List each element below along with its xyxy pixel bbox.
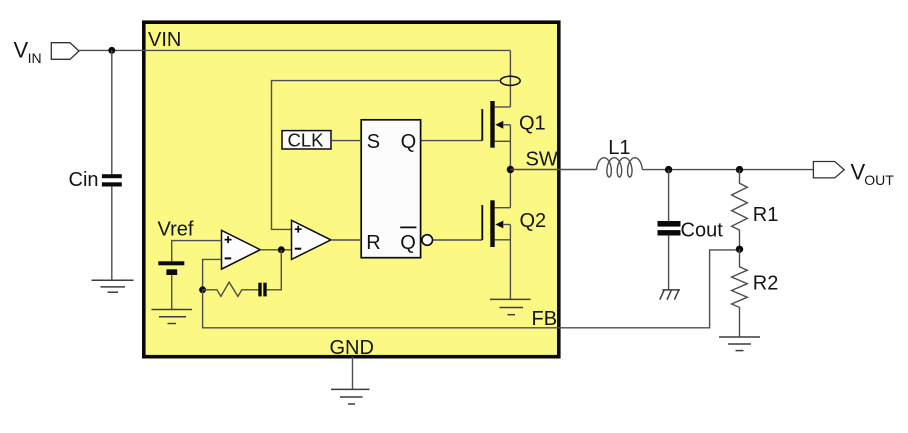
port flag VOUT bbox=[813, 162, 844, 178]
wire Cin top lead bbox=[111, 50, 113, 174]
capacitor Cout plates bbox=[658, 221, 681, 236]
wire A1 output to comparator bbox=[260, 249, 291, 251]
svg-text:VIN: VIN bbox=[148, 29, 181, 51]
wire A1 minus input bbox=[203, 259, 222, 289]
wire CLK to S bbox=[331, 140, 361, 142]
sr-latch U2 box bbox=[361, 120, 420, 258]
wire Q1 drain riser from VIN bbox=[509, 50, 511, 107]
svg-text:GND: GND bbox=[330, 337, 374, 359]
wire A2 output to R input bbox=[331, 239, 361, 241]
wire L1 to output flag bbox=[642, 169, 813, 171]
svg-text:IN: IN bbox=[28, 50, 42, 66]
svg-text:Cin: Cin bbox=[69, 169, 99, 191]
op-amp error amplifier A1 bbox=[222, 230, 261, 269]
wire Cout bottom lead bbox=[668, 236, 670, 290]
wire Vref to A1 plus input bbox=[172, 241, 222, 262]
battery Vref bbox=[158, 261, 184, 275]
svg-text:FB: FB bbox=[532, 308, 558, 330]
wire current sense to comparator loop bbox=[272, 81, 501, 230]
svg-text:S: S bbox=[367, 131, 380, 153]
node SW junction bbox=[507, 166, 514, 173]
clock source CLK box bbox=[282, 131, 331, 149]
resistor R1 bbox=[732, 170, 748, 250]
svg-text:R1: R1 bbox=[753, 204, 779, 226]
node A1 output junction bbox=[278, 246, 285, 253]
wire GND pin to ground bbox=[352, 357, 354, 390]
label Qbar output bbox=[400, 227, 416, 253]
port flag VIN bbox=[51, 43, 79, 60]
node VIN junction bbox=[108, 47, 115, 54]
resistor compensation bbox=[203, 282, 259, 296]
node compensation A bbox=[199, 286, 206, 293]
resistor R2 bbox=[732, 249, 748, 337]
node R1 top junction bbox=[736, 166, 743, 173]
ground R2 bbox=[719, 337, 760, 351]
svg-text:V: V bbox=[14, 37, 29, 62]
svg-text:Q: Q bbox=[400, 232, 416, 254]
wire VIN net (flag to Q1 drain column) bbox=[79, 49, 510, 51]
current sense ellipse bbox=[500, 76, 520, 85]
bubble Qbar bbox=[422, 235, 433, 246]
svg-text:R2: R2 bbox=[753, 273, 779, 295]
svg-text:Q1: Q1 bbox=[519, 112, 546, 134]
wire SW to inductor bbox=[510, 169, 596, 171]
node R1 R2 junction bbox=[736, 246, 743, 253]
wire compensation to A1 output bbox=[267, 250, 282, 290]
ground Vref bbox=[152, 310, 193, 324]
svg-text:Vref: Vref bbox=[158, 218, 194, 240]
svg-text:Cout: Cout bbox=[681, 220, 724, 242]
svg-text:OUT: OUT bbox=[864, 172, 894, 188]
capacitor Cin plates bbox=[102, 174, 122, 186]
svg-text:L1: L1 bbox=[608, 137, 630, 159]
inductor L1 bbox=[597, 158, 643, 177]
svg-text:Q: Q bbox=[401, 131, 417, 153]
transistor Q2 bbox=[433, 170, 511, 300]
capacitor compensation bbox=[258, 283, 266, 297]
transistor Q1 bbox=[421, 101, 511, 170]
ground Cin bbox=[92, 280, 134, 292]
node Cout junction bbox=[665, 166, 672, 173]
ground GND pin bbox=[331, 389, 370, 404]
svg-text:SW: SW bbox=[526, 148, 558, 170]
svg-text:CLK: CLK bbox=[288, 129, 325, 150]
wire FB net bbox=[203, 250, 740, 328]
wire battery to ground bbox=[171, 275, 173, 310]
chassis ground Cout bbox=[660, 290, 680, 300]
IC body U1 (yellow block) bbox=[144, 22, 559, 357]
svg-text:R: R bbox=[366, 232, 380, 254]
wire Cin bottom lead bbox=[111, 187, 113, 281]
ground Q2 source bbox=[490, 299, 531, 314]
comparator A2 bbox=[292, 220, 331, 259]
svg-text:Q2: Q2 bbox=[520, 210, 547, 232]
wire Cout top lead bbox=[668, 170, 670, 221]
